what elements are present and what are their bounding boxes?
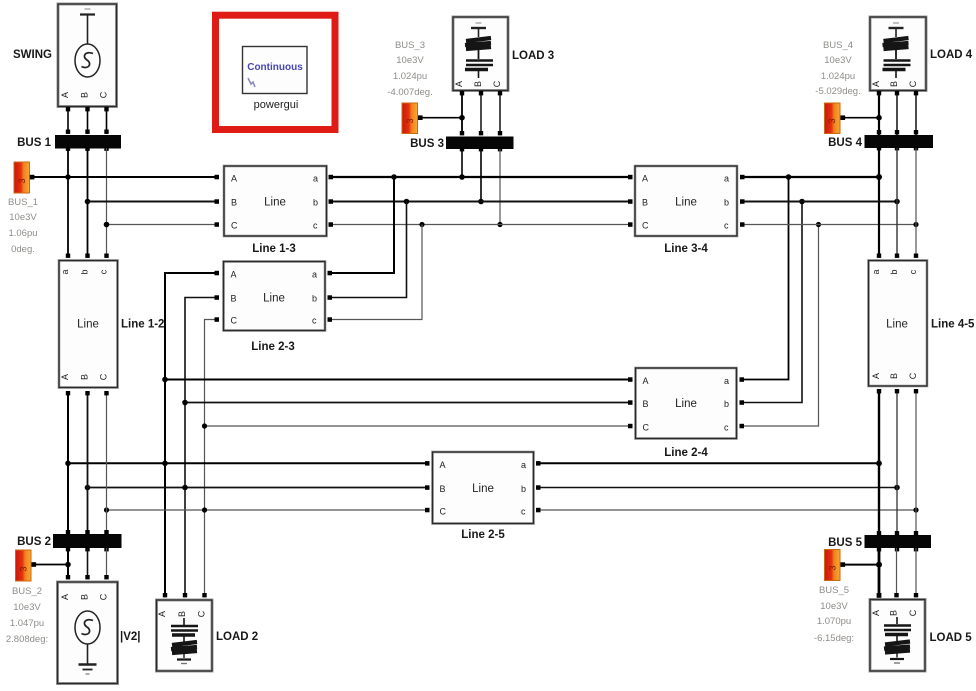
svg-text:B: B [473, 81, 483, 87]
svg-text:b: b [521, 484, 526, 494]
line block Line 1-2 (vertical) [59, 261, 118, 388]
RLC load icon inside LOAD 3 [465, 38, 493, 78]
svg-text:C: C [643, 423, 650, 433]
wire riser A to Line 2-4 A [162, 377, 632, 383]
svg-text:BUS_4: BUS_4 [823, 40, 853, 51]
wire bus2 phase C riser to Line 2-3 C [202, 317, 219, 597]
RLC load icon inside LOAD 4 [883, 38, 911, 78]
BUS3 bottom stub squares [460, 147, 502, 151]
BUS4 bottom stub squares [877, 146, 918, 150]
svg-text:A: A [643, 376, 649, 386]
svg-text:BUS 1: BUS 1 [17, 137, 51, 149]
wire BUS4 phase B down to Line 4-5 b [895, 148, 899, 258]
label Line 2-3 [251, 341, 294, 353]
line block Line 4-5 (vertical) [869, 261, 928, 387]
wire BUS1 phase A vertical to Line 1-2 port a [66, 148, 70, 258]
label Line 1-3 [252, 243, 295, 255]
svg-text:1.06pu: 1.06pu [8, 228, 37, 239]
source block SWING (three-phase source V1) [58, 4, 117, 107]
wire BUS_4 meter to LOAD4 phase A stub [844, 115, 882, 121]
wire Line 1-2 bottom C to BUS2 [104, 391, 108, 534]
label BUS 5 [828, 537, 862, 549]
svg-text:B: B [80, 374, 90, 380]
svg-text:3: 3 [827, 118, 837, 123]
svg-text:b: b [80, 269, 90, 274]
wire Line 2-4 a up to bus4 phase A wire [740, 174, 792, 382]
SWING port letters A B C (rotated) [60, 91, 109, 98]
svg-text:A: A [60, 594, 70, 600]
svg-text:powergui: powergui [254, 99, 299, 111]
label BUS 1 [17, 137, 51, 149]
wire Line 4-5 C down to BUS5 [914, 389, 918, 535]
gray value text BUS_3 [387, 40, 432, 98]
svg-text:Line 1-3: Line 1-3 [252, 243, 295, 255]
svg-text:A: A [60, 374, 70, 380]
svg-text:Line: Line [675, 398, 697, 410]
AC source symbol (circle with sine) inside SWING [75, 44, 100, 77]
LOAD3 port letters A B C (rotated) [454, 80, 502, 87]
wire BUS4 phase A down to Line 4-5 a [877, 148, 881, 258]
label LOAD 3 [512, 50, 554, 62]
svg-text:a: a [312, 270, 317, 280]
svg-text:B: B [440, 484, 446, 494]
label Line 2-4 [664, 447, 708, 459]
svg-text:B: B [80, 594, 90, 600]
wire Line 2-3 c up to bus3 phase C wire [328, 225, 423, 322]
svg-text:BUS 2: BUS 2 [17, 536, 51, 548]
wire bus2 phase A riser to Line 2-3 A [163, 271, 219, 598]
wire bus2 phase B riser to Line 2-3 B [183, 295, 219, 597]
svg-text:B: B [643, 399, 649, 409]
svg-text:10e3V: 10e3V [13, 602, 41, 613]
svg-text:B: B [642, 198, 648, 208]
svg-text:BUS_3: BUS_3 [395, 40, 425, 51]
wire BUS_2 meter to BUS2 phase A stub [36, 562, 71, 568]
wire BUS2 phase C to Line 2-5 C [104, 507, 430, 512]
line block Line 2-4 [636, 368, 737, 439]
wire Line 2-4 b up to bus4 phase B wire [740, 199, 805, 405]
bus bar BUS 3 [446, 137, 514, 150]
label Line 3-4 [664, 243, 708, 255]
wire Line 4-5 A down to BUS5 [877, 389, 881, 535]
gray value text BUS_5 [814, 585, 854, 644]
svg-text:Line 1-2: Line 1-2 [121, 319, 164, 331]
svg-text:BUS_2: BUS_2 [12, 586, 42, 597]
measurement display block BUS_2 (orange) [16, 550, 37, 581]
svg-text:BUS 3: BUS 3 [410, 138, 444, 150]
load block LOAD 5 [870, 600, 925, 672]
svg-text:Line 4-5: Line 4-5 [931, 319, 975, 331]
wire BUS1 phase C to Line 1-3 port C [104, 222, 219, 228]
label LOAD 4 [930, 49, 973, 61]
wire BUS1 phase C vertical to Line 1-2 port c [104, 148, 108, 258]
svg-text:Line: Line [77, 319, 99, 331]
svg-text:A: A [454, 81, 464, 87]
svg-text:BUS_5: BUS_5 [819, 585, 849, 596]
svg-text:C: C [99, 593, 109, 600]
svg-text:a: a [871, 269, 881, 274]
wire BUS2 A down to V2 [66, 548, 70, 579]
svg-text:A: A [871, 610, 881, 616]
svg-text:A: A [60, 92, 70, 98]
label LOAD 5 [930, 632, 973, 644]
label BUS 4 [828, 137, 862, 149]
svg-text:BUS 5: BUS 5 [828, 537, 862, 549]
svg-text:c: c [313, 221, 318, 231]
wire Line 4-5 B down to BUS5 [895, 389, 899, 535]
svg-text:|V2|: |V2| [120, 631, 141, 643]
bus bar BUS 5 [865, 535, 932, 548]
svg-text:A: A [157, 611, 167, 617]
label LOAD 2 [216, 631, 258, 643]
powergui block [243, 47, 308, 94]
BUS2 edge stub squares [66, 530, 109, 551]
svg-text:B: B [889, 81, 899, 87]
svg-text:b: b [889, 269, 899, 274]
gray value text BUS_4 [815, 40, 860, 97]
svg-text:a: a [60, 269, 70, 274]
svg-text:A: A [440, 460, 446, 470]
svg-text:A: A [231, 174, 237, 184]
label BUS 2 [17, 536, 51, 548]
svg-text:C: C [231, 316, 238, 326]
measurement display block BUS_4 (orange) [825, 103, 846, 134]
svg-text:b: b [724, 198, 729, 208]
ground symbol inside LOAD 3 [471, 23, 486, 37]
wire BUS3 phase C down to node on wire c13 [497, 149, 502, 227]
wire Line 3-4 b to BUS4 phase B [740, 199, 900, 205]
BUS5 edge stub squares [877, 531, 918, 551]
wire riser B to Line 2-4 B [182, 400, 632, 406]
svg-text:0deg.: 0deg. [11, 244, 35, 255]
wire BUS5 C down to LOAD5 [914, 548, 918, 597]
wire a13: Line 1-3 a to Line 3-4 A (bus 3 phase A net) [329, 174, 633, 180]
wire Line 2-3 b up to bus3 phase B wire [328, 202, 407, 300]
svg-text:B: B [889, 610, 899, 616]
svg-text:c: c [521, 507, 526, 517]
wire Line 1-2 bottom A to BUS2 [66, 391, 70, 534]
wire LOAD4 C to BUS4 [914, 91, 918, 135]
svg-text:b: b [313, 198, 318, 208]
svg-text:B: B [889, 373, 899, 379]
wire BUS_1 meter + phase A to Line 1-3 port A [34, 175, 219, 180]
wire LOAD3 C to BUS3 [498, 91, 502, 135]
V2 port letters A B C (rotated) [60, 593, 109, 600]
wire Line 3-4 a to BUS4 phase A [740, 174, 882, 180]
svg-text:LOAD 5: LOAD 5 [930, 632, 973, 644]
svg-text:Line 2-5: Line 2-5 [461, 529, 505, 541]
wire SWING B to BUS1 [85, 107, 89, 134]
svg-text:a: a [313, 174, 318, 184]
measurement display block BUS_3 (orange) [402, 103, 423, 134]
svg-text:A: A [231, 270, 237, 280]
svg-text:3: 3 [19, 566, 29, 571]
svg-text:LOAD 4: LOAD 4 [930, 49, 973, 61]
measurement display block BUS_1 (orange) [14, 162, 34, 193]
bus bar BUS 2 [53, 534, 122, 548]
red highlight rectangle around powergui [216, 15, 336, 129]
load block LOAD 2 [157, 600, 213, 671]
wire Line 2-5 c to BUS5 phase C riser [536, 507, 919, 512]
wire BUS2 B down to V2 [85, 548, 89, 579]
svg-text:Line: Line [675, 197, 697, 209]
bus bar BUS 4 [865, 135, 934, 148]
svg-text:b: b [724, 399, 729, 409]
svg-text:1.024pu: 1.024pu [821, 71, 855, 82]
BUS1 bottom stub squares [66, 147, 109, 151]
svg-text:Line 2-3: Line 2-3 [251, 341, 294, 353]
svg-text:1.070pu: 1.070pu [817, 616, 851, 627]
ground symbol inside SWING [80, 9, 95, 44]
line block Line 2-5 [433, 452, 534, 524]
wire Line 2-4 c up to bus4 phase C wire [740, 222, 822, 428]
svg-text:C: C [231, 221, 238, 231]
gray value text BUS_2 [6, 586, 48, 645]
wire BUS5 A down to LOAD5 [877, 548, 882, 598]
svg-text:10e3V: 10e3V [820, 601, 848, 612]
AC source symbol (circle with sine) inside V2 [75, 611, 100, 664]
svg-text:Line: Line [472, 483, 494, 495]
wire BUS_5 meter to BUS5 phase A stub [845, 562, 882, 568]
wire SWING C to BUS1 [104, 107, 108, 134]
wire Line 1-2 bottom B to BUS2 [85, 391, 89, 534]
wire Line 3-4 c to BUS4 phase C [740, 222, 919, 227]
load block LOAD 4 [870, 17, 926, 91]
svg-text:C: C [908, 80, 918, 87]
wire c13: Line 1-3 c to Line 3-4 C [329, 222, 633, 227]
line block Line 1-3 [224, 166, 327, 236]
gray value text BUS_1 [8, 197, 38, 255]
svg-text:C: C [197, 610, 207, 617]
wire Line 2-5 a to BUS5 phase A riser [536, 460, 882, 466]
source block V2 (generator at bus 2) [58, 582, 118, 684]
svg-text:Line 3-4: Line 3-4 [664, 243, 708, 255]
wire Line 2-3 a up to bus3 phase A wire [328, 177, 395, 275]
wire riser C to Line 2-4 C [202, 423, 633, 428]
LOAD2 port letters A B C (rotated) [157, 610, 207, 617]
svg-text:Line: Line [263, 293, 285, 305]
svg-text:10e3V: 10e3V [396, 55, 424, 66]
svg-text:LOAD 3: LOAD 3 [512, 50, 554, 62]
wire b13: Line 1-3 b to Line 3-4 B [329, 199, 633, 205]
svg-text:A: A [871, 81, 881, 87]
svg-text:Line: Line [264, 197, 286, 209]
svg-text:Line: Line [886, 319, 908, 331]
wire BUS1 phase B to Line 1-3 port B [85, 199, 219, 205]
svg-text:SWING: SWING [13, 49, 52, 61]
ground symbol inside V2 [79, 665, 97, 675]
wire BUS2 phase B to Line 2-5 B [85, 485, 430, 491]
label Line 4-5 [931, 319, 975, 331]
wire BUS2 phase A to Line 2-5 A [65, 461, 429, 467]
label Line 2-5 [461, 529, 505, 541]
svg-text:c: c [312, 316, 317, 326]
label powergui [254, 99, 299, 111]
label BUS 3 [410, 138, 444, 150]
svg-text:A: A [871, 373, 881, 379]
wire LOAD3 A to BUS3 [460, 91, 464, 135]
wire BUS3 phase B down to node on wire b13 [478, 149, 484, 204]
RLC load icon inside LOAD 5 [884, 617, 911, 663]
svg-text:-4.007deg.: -4.007deg. [387, 87, 432, 98]
svg-text:-5.029deg.: -5.029deg. [815, 86, 860, 97]
LOAD4 port letters A B C (rotated) [871, 80, 918, 87]
svg-text:c: c [99, 269, 109, 274]
svg-text:B: B [80, 92, 90, 98]
svg-text:C: C [99, 91, 109, 98]
svg-text:a: a [724, 376, 729, 386]
svg-text:Continuous: Continuous [247, 62, 303, 73]
ground symbol inside LOAD 4 [889, 23, 904, 37]
svg-text:LOAD 2: LOAD 2 [216, 631, 258, 643]
label Line 1-2 [121, 319, 164, 331]
svg-text:10e3V: 10e3V [9, 212, 37, 223]
measurement display block BUS_5 (orange) [825, 550, 846, 581]
svg-text:C: C [642, 221, 649, 231]
svg-text:C: C [908, 372, 918, 379]
svg-text:c: c [724, 221, 729, 231]
svg-text:A: A [642, 174, 648, 184]
svg-text:2.808deg:: 2.808deg: [6, 634, 48, 645]
wire BUS_3 meter to LOAD3 phase A stub [422, 115, 465, 121]
wire Line 2-5 b to BUS5 phase B riser [536, 485, 900, 491]
svg-text:B: B [177, 611, 187, 617]
wire BUS4 phase C down to Line 4-5 c [914, 148, 918, 258]
svg-text:b: b [312, 294, 317, 304]
wire SWING A to BUS1 [66, 107, 70, 134]
wire BUS3 phase A down to node on wire a13 [459, 149, 465, 180]
svg-text:Line 2-4: Line 2-4 [664, 447, 708, 459]
svg-text:1.024pu: 1.024pu [393, 71, 427, 82]
wire BUS2 C down to V2 [104, 548, 108, 579]
svg-text:C: C [440, 507, 447, 517]
svg-text:1.047pu: 1.047pu [10, 618, 44, 629]
svg-text:BUS_1: BUS_1 [8, 197, 38, 208]
load block LOAD 3 [453, 17, 508, 91]
wire LOAD3 B to BUS3 [479, 91, 483, 135]
bus bar BUS 1 [55, 135, 121, 149]
line block Line 3-4 [635, 166, 737, 236]
RLC load icon inside LOAD 2 [171, 618, 198, 664]
wire BUS1 phase B vertical to Line 1-2 port b [85, 148, 89, 258]
label SWING [13, 49, 52, 61]
svg-text:c: c [724, 423, 729, 433]
wire BUS5 B down to LOAD5 [894, 548, 898, 597]
svg-text:-6.15deg:: -6.15deg: [814, 633, 854, 644]
svg-text:c: c [908, 269, 918, 274]
svg-text:B: B [231, 294, 237, 304]
svg-text:3: 3 [17, 178, 27, 183]
svg-text:B: B [231, 198, 237, 208]
label |V2| [120, 631, 141, 643]
svg-text:BUS 4: BUS 4 [828, 137, 862, 149]
line block Line 2-3 [224, 262, 326, 331]
svg-text:3: 3 [828, 565, 838, 570]
svg-text:C: C [908, 609, 918, 616]
svg-text:10e3V: 10e3V [824, 55, 852, 66]
svg-text:3: 3 [405, 118, 415, 123]
wire LOAD4 A to BUS4 [877, 91, 881, 135]
svg-text:C: C [492, 80, 502, 87]
svg-text:a: a [521, 460, 526, 470]
svg-text:C: C [99, 373, 109, 380]
svg-text:a: a [724, 174, 729, 184]
LOAD5 port letters A B C (rotated) [871, 609, 918, 616]
wire LOAD4 B to BUS4 [895, 91, 899, 135]
